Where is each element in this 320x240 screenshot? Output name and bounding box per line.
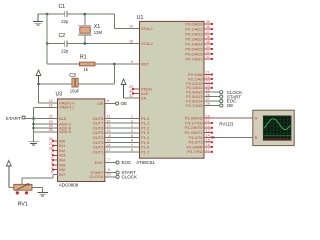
oscilloscope — [253, 110, 294, 145]
svg-text:5: 5 — [51, 171, 53, 175]
svg-text:OE: OE — [98, 101, 104, 106]
U3 right pin labels — [90, 101, 105, 179]
svg-text:25: 25 — [49, 128, 53, 132]
wire scope channel A — [211, 117, 253, 119]
wire pot right to ground — [32, 187, 43, 192]
svg-text:8: 8 — [109, 134, 111, 138]
svg-text:C1: C1 — [59, 4, 66, 10]
pin PSEN stub — [132, 88, 140, 90]
wire P2.5 to START terminal — [204, 96, 220, 98]
U1 port P0 pins 39-32 — [185, 20, 213, 61]
label U3 — [56, 92, 63, 98]
label C3 — [69, 73, 76, 79]
svg-text:9: 9 — [131, 60, 133, 64]
wire bus down to RST row — [47, 44, 79, 65]
svg-text:VREF(-): VREF(-) — [59, 105, 74, 110]
label X1 — [94, 24, 100, 30]
svg-text:ADD A: ADD A — [59, 129, 71, 134]
U1 port P3 pins 10-17 — [184, 114, 212, 154]
crystal X1 — [78, 25, 92, 35]
svg-text:ALE: ALE — [59, 116, 67, 121]
svg-text:14: 14 — [206, 134, 210, 138]
pin CLOCK wire terminal — [105, 173, 137, 180]
wire ADD C stub — [34, 123, 58, 125]
junction crystal bottom — [84, 42, 87, 45]
node A junction C1/C2 bus — [46, 13, 49, 16]
svg-text:18: 18 — [129, 40, 133, 44]
resistor R1 — [80, 62, 96, 66]
svg-text:CLOCK: CLOCK — [122, 174, 138, 179]
svg-text:33: 33 — [206, 50, 210, 54]
svg-text:EOC: EOC — [122, 160, 133, 165]
svg-text:20: 20 — [107, 119, 111, 123]
svg-text:XTAL1: XTAL1 — [141, 26, 154, 31]
ground (crystal caps) — [33, 14, 43, 25]
svg-text:19: 19 — [107, 124, 111, 128]
svg-text:12: 12 — [206, 124, 210, 128]
pin EOC wire terminal — [105, 158, 132, 165]
wire to XTAL1 pin 19 — [114, 28, 139, 30]
wire VCC line to C3 — [39, 83, 72, 85]
U1 port P2 pins 21-28 — [186, 71, 213, 108]
svg-text:EA: EA — [141, 95, 147, 100]
svg-text:15: 15 — [107, 139, 111, 143]
wire C1 right to corner — [67, 14, 114, 29]
label C2 — [59, 33, 66, 39]
svg-text:9: 9 — [107, 99, 109, 103]
svg-text:21: 21 — [107, 115, 111, 119]
wire VCC down to VREF+ — [39, 84, 58, 103]
value C1 22p — [61, 19, 69, 24]
svg-text:37: 37 — [206, 30, 210, 34]
svg-text:ADC0808: ADC0808 — [59, 182, 79, 187]
wire gnd bus vertical — [33, 107, 35, 141]
svg-text:12M: 12M — [94, 30, 103, 35]
wire P2.6 to EOC terminal — [204, 100, 220, 102]
wire START to ALE pin 22 — [25, 118, 58, 120]
mcu U1 body — [140, 21, 205, 158]
svg-text:10: 10 — [107, 173, 111, 177]
svg-text:P2.7/A15: P2.7/A15 — [186, 103, 203, 108]
svg-text:16: 16 — [206, 143, 210, 147]
wires U3 OUT to U1 P1 bus — [105, 115, 140, 153]
svg-text:39: 39 — [206, 20, 210, 24]
svg-text:14: 14 — [107, 143, 111, 147]
wire scope channel B — [213, 137, 253, 139]
wire crystal bottom stub — [84, 35, 86, 44]
svg-text:OE: OE — [121, 101, 128, 106]
potentiometer RV1 — [14, 184, 32, 191]
svg-text:32: 32 — [206, 55, 210, 59]
svg-text:36: 36 — [206, 35, 210, 39]
capacitor C3 — [72, 78, 78, 87]
label ADC0808 — [59, 182, 79, 187]
ground (ADC address) — [28, 142, 38, 146]
svg-text:CLOCK: CLOCK — [90, 174, 104, 179]
adc U3 body — [58, 99, 105, 182]
svg-text:EOC: EOC — [95, 160, 104, 165]
svg-text:P1.7: P1.7 — [141, 149, 150, 154]
wire P2.7 to OE terminal — [204, 105, 220, 107]
value R1 1k — [84, 67, 89, 72]
svg-text:15: 15 — [206, 138, 210, 142]
junction C2 bus — [46, 42, 49, 45]
wire crystal top stub — [84, 14, 86, 25]
svg-text:RV1(2): RV1(2) — [219, 121, 233, 126]
svg-text:C3: C3 — [69, 73, 76, 79]
svg-text:10: 10 — [206, 114, 210, 118]
wire pot left — [9, 186, 14, 188]
value X1 12M — [94, 30, 103, 35]
wire EA pin 31 — [124, 97, 140, 99]
junction RST node — [113, 63, 116, 66]
svg-text:START: START — [6, 116, 21, 122]
terminal START (input) — [22, 116, 25, 119]
junction crystal top — [84, 13, 87, 16]
wire P2.4 to CLOCK terminal — [204, 91, 220, 93]
wire ADD A stub — [34, 128, 58, 132]
label RV1 — [18, 202, 28, 208]
svg-text:OUT1: OUT1 — [93, 149, 104, 154]
svg-text:18: 18 — [107, 129, 111, 133]
svg-text:35: 35 — [206, 40, 210, 44]
svg-text:22p: 22p — [61, 49, 69, 54]
svg-text:C2: C2 — [59, 33, 66, 39]
label R1 — [80, 55, 87, 61]
junction gnd bus / ADD B — [32, 127, 35, 130]
svg-text:RV1: RV1 — [18, 202, 28, 208]
pin OE wire terminal — [105, 99, 127, 106]
wire C2 right to XTAL2 pin 18 — [67, 43, 140, 45]
value C2 22p — [61, 49, 69, 54]
value C3 10uF — [70, 88, 80, 93]
svg-text:10uF: 10uF — [70, 88, 80, 93]
net label RV1(2) — [219, 121, 233, 126]
wire R1 to RST pin 9 — [95, 63, 140, 65]
pin START wire terminal — [105, 168, 136, 175]
wire C2 left — [47, 43, 64, 45]
junction gnd bus / ADD C — [32, 123, 35, 126]
pot bottom terminal dots — [16, 191, 28, 194]
wire ADD B stub — [34, 127, 58, 129]
svg-text:U1: U1 — [137, 15, 144, 21]
svg-text:13: 13 — [206, 129, 210, 133]
U1 left pin labels and numbers — [129, 25, 154, 155]
svg-text:34: 34 — [206, 45, 210, 49]
svg-text:XTAL2: XTAL2 — [141, 41, 154, 46]
svg-text:38: 38 — [206, 25, 210, 29]
capacitor C1 — [65, 11, 67, 17]
svg-text:IN7: IN7 — [59, 172, 66, 177]
svg-text:A: A — [255, 116, 258, 121]
wire C1 left — [47, 13, 64, 15]
svg-text:B: B — [255, 135, 258, 140]
svg-text:OE: OE — [227, 103, 234, 108]
svg-text:P3.7/RD: P3.7/RD — [187, 149, 202, 154]
wire VREF- to gnd bus — [34, 106, 58, 108]
label AT89C51 — [136, 160, 155, 165]
ground (pot) — [37, 192, 47, 196]
label START left — [6, 116, 21, 122]
wire pot wiper to IN7 — [22, 175, 58, 185]
svg-text:7: 7 — [108, 158, 110, 162]
power VCC (pot) — [6, 161, 11, 188]
wire RST node down — [78, 64, 114, 84]
svg-text:17: 17 — [206, 148, 210, 152]
label C1 — [59, 4, 66, 10]
svg-text:P0.7/AD7: P0.7/AD7 — [185, 56, 203, 61]
U3 left pin labels and numbers — [49, 99, 76, 177]
wire ground to C1 node — [38, 13, 47, 15]
label U1 — [137, 15, 144, 21]
wire vertical gnd bus C1-C2 — [46, 14, 48, 44]
U3 IN0-IN6 dangling stubs — [52, 140, 58, 171]
svg-text:19: 19 — [129, 25, 133, 29]
power VCC (reset) — [36, 70, 41, 84]
svg-text:17: 17 — [107, 148, 111, 152]
svg-text:22p: 22p — [61, 19, 69, 24]
svg-text:16: 16 — [49, 104, 53, 108]
svg-text:AT89C51: AT89C51 — [136, 160, 155, 165]
svg-text:11: 11 — [206, 119, 210, 123]
junction gnd bus / START wire — [32, 117, 35, 120]
capacitor C2 — [65, 40, 67, 47]
svg-text:U3: U3 — [56, 92, 63, 98]
svg-text:R1: R1 — [80, 55, 87, 61]
svg-text:RST: RST — [141, 61, 150, 66]
svg-text:22: 22 — [49, 115, 53, 119]
svg-text:31: 31 — [129, 94, 133, 98]
pin ALE stub — [132, 93, 140, 95]
terminals CLOCK START EOC OE (mcu side) — [220, 90, 243, 108]
power VCC (EA pin) — [121, 79, 126, 98]
junction VCC node — [37, 83, 40, 86]
